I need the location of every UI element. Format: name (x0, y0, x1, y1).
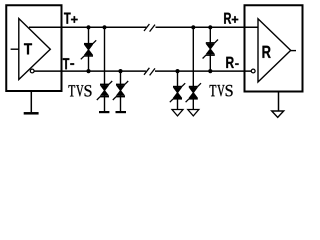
TVS D1 (line-line, left) bidirectional bowtie (81, 40, 96, 59)
driver triangle T (19, 19, 51, 80)
ground stem of transmitter box (30, 92, 32, 112)
TVS D2 (line-line, right) bidirectional bowtie (203, 40, 218, 59)
break mark on bottom line (144, 68, 155, 76)
break mark on top line (144, 24, 155, 32)
junction dot top wire x=104.5 (102, 25, 106, 29)
junction dot top wire x=210.3 (208, 25, 212, 29)
ground bar below D3 (99, 111, 109, 113)
branch wire x=120.5 (T- to ground) (120, 71, 122, 112)
wire T+ / R+ (top line, left segment) (29, 26, 146, 28)
receiver output stub (291, 50, 296, 52)
inverting output bubble (T-) (30, 69, 34, 73)
label R- (226, 57, 238, 68)
junction dot bottom wire x=88.5 (86, 69, 90, 73)
junction dot bottom wire x=120.5 (118, 69, 122, 73)
junction dot top wire x=193.3 (191, 25, 195, 29)
junction dot bottom wire x=210.3 (208, 69, 212, 73)
ground triangle of receiver box (272, 111, 284, 117)
label T+ (64, 13, 78, 24)
TVS D6 (R+ to ground) bowtie (186, 83, 201, 102)
junction dot bottom wire x=177.5 (175, 69, 179, 73)
transmitter box U1 (6, 5, 61, 91)
label T- (63, 58, 74, 69)
label R+ (224, 13, 238, 24)
branch wire x=177.5 (R- to ground) (177, 71, 179, 110)
TVS D4 (T- to ground) bowtie (113, 81, 128, 100)
TVS D5 (R- to ground) bowtie (170, 83, 185, 102)
label T (driver) (24, 43, 32, 54)
label TVS (right) (210, 85, 233, 96)
wire T- / R- (bottom line, left segment) (34, 70, 146, 72)
wire T+ / R+ (top line, right segment) (156, 26, 259, 28)
branch wire x=210.3 (line-to-line TVS, right) (209, 27, 211, 71)
branch wire x=88.5 (line-to-line TVS, left) (88, 27, 90, 71)
receiver box U2 (245, 5, 303, 91)
inverting input bubble (R-) (251, 69, 255, 73)
label TVS (left) (69, 85, 92, 96)
receiver triangle R (258, 19, 291, 82)
label R (receiver) (263, 46, 271, 58)
ground triangle below D5 (172, 110, 183, 116)
ground stem of receiver box (278, 93, 280, 111)
ground triangle below D6 (188, 110, 199, 116)
driver input stub (11, 48, 19, 50)
junction dot top wire x=88.5 (86, 25, 90, 29)
TVS D3 (T+ to ground) bowtie (97, 81, 112, 100)
wire T- / R- (bottom line, right segment) (155, 70, 251, 72)
branch wire x=193.3 (R+ to ground) (192, 27, 194, 110)
ground bar below D4 (116, 111, 127, 113)
ground bar of transmitter box (24, 112, 39, 115)
branch wire x=104.5 (T+ to ground) (104, 27, 106, 112)
